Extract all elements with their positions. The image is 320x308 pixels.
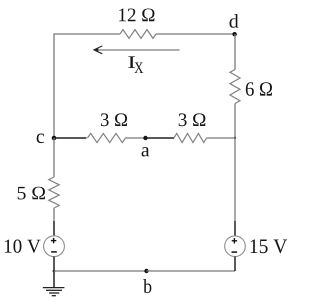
resistor 5 ohm (left) [49,177,59,208]
resistor 3 ohm right (middle) [174,133,207,142]
voltage source 10V minus sign [51,251,57,253]
voltage source 10V circle [44,236,65,257]
node a dot [143,136,147,140]
label 5 ohm value [18,187,45,200]
voltage source 10V top lead [53,221,55,236]
label 3 ohm left value [101,113,127,126]
label Ix [128,56,143,73]
wire bottom from node b to 15V source [147,270,236,272]
voltage source 15V plus sign [232,238,237,243]
voltage source 10V bottom lead down to ground [53,257,55,288]
wire top from corner to 12-ohm resistor [54,34,120,138]
voltage source 15V bottom lead [234,257,236,272]
label node d [229,14,238,28]
label node a [142,147,150,156]
label node c [37,134,45,144]
node d dot [232,32,236,36]
ground [43,288,65,296]
wire middle from second 3-ohm resistor to right wire [207,137,236,139]
label 6 ohm value [246,82,272,96]
wire left from node c down to 5-ohm resistor [53,138,55,177]
label 12 ohm value [119,8,154,21]
junction dot middle-right [234,137,236,139]
resistor 3 ohm left (middle) [88,133,126,142]
wire top from 12-ohm resistor to node d [156,33,235,35]
wire right from node d down to 6-ohm resistor [234,34,236,70]
current arrow Ix shaft [96,49,180,51]
resistor 6 ohm (right) [230,70,240,104]
wire bottom from left junction to node b [54,270,147,272]
wire right from middle junction down to 15V source [234,138,236,221]
label 10 V value [5,239,41,252]
label 15 V value [251,239,287,253]
voltage source 15V minus sign [232,251,238,253]
label node b [143,279,151,293]
resistor 12 ohm (top) [120,30,156,39]
voltage source 15V top lead [234,221,236,236]
wire right from 6-ohm resistor to middle junction [234,104,236,139]
wire left from 5-ohm resistor down [53,208,55,221]
voltage source 15V circle [225,236,246,257]
node c dot [52,136,57,141]
wire middle dark lead from node c to first 3-ohm resistor [54,137,87,139]
current arrow Ix head [94,46,103,54]
label 3 ohm right value [179,113,206,126]
node b dot [144,269,148,273]
voltage source 10V plus sign [51,238,56,243]
wire middle dark lead from node a to second 3-ohm resistor [146,137,175,139]
junction dot bottom-left [53,270,56,273]
wire middle from first 3-ohm resistor to node a [126,137,146,139]
